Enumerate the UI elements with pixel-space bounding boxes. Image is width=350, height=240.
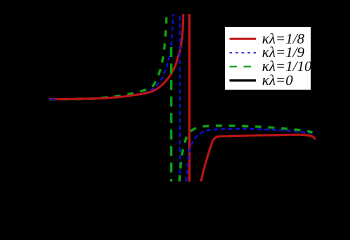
curve kl=1/8 red left branch bbox=[49, 14, 183, 99]
curve kl=1/10 green right branch bbox=[179, 126, 312, 182]
curve kl=1/8 red right branch bbox=[201, 135, 315, 182]
curve kl=1/9 blue right branch bbox=[186, 129, 315, 182]
curve kl=1/9 blue left branch bbox=[49, 14, 173, 99]
svg-text:κλ=0: κλ=0 bbox=[262, 73, 293, 89]
legend sample line kl=1/9 blue bbox=[230, 52, 257, 54]
curve kl=1/10 green left branch bbox=[49, 14, 167, 99]
curve kl=1/10 green pole line bbox=[170, 47, 172, 182]
legend sample line kl=0 black bbox=[230, 79, 257, 81]
legend box bbox=[225, 27, 311, 90]
curve kl=1/9 blue tail start dash over red bbox=[50, 98, 56, 100]
curve kl=1/9 blue pole line bbox=[179, 14, 181, 182]
curve kl=1/8 red pole line bbox=[188, 14, 190, 182]
legend sample line kl=1/10 green bbox=[230, 66, 257, 68]
legend sample line kl=1/8 red bbox=[230, 38, 257, 40]
